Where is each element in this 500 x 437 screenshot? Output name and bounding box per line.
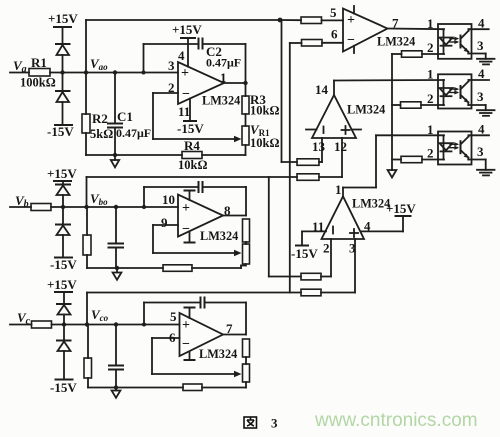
ground arrow channel B (113, 266, 122, 280)
resistor R3 channel B (243, 219, 250, 242)
svg-text:5: 5 (170, 309, 177, 324)
node junction dots channel C (62, 322, 146, 326)
svg-text:+15V: +15V (48, 11, 78, 26)
node junction dots channel B (61, 205, 146, 209)
svg-text:Vb: Vb (15, 193, 29, 210)
power stub bottom comparator (353, 46, 355, 53)
op-amp U1B triangle (178, 195, 223, 237)
wire resistor to pin2 vertical (321, 276, 331, 278)
wire pin2 to row 276 (330, 239, 332, 277)
optocoupler U5 box (438, 132, 472, 165)
resistor opto3 pin2 (401, 156, 422, 162)
potentiometer channel B (243, 244, 250, 264)
wire pin11 stub to -15V U2C (296, 231, 326, 245)
svg-text:+: + (347, 13, 355, 28)
ground bus for opto resistors (391, 54, 393, 170)
svg-text:0.47μF: 0.47μF (206, 56, 241, 70)
power stub pin4 op-amp U1B (185, 191, 195, 201)
ground symbol opto3 (477, 170, 495, 176)
diode D1 clamp to +15V channel A (56, 44, 70, 73)
capacitor C1 channel C (109, 325, 123, 388)
wire Vb input (10, 206, 31, 208)
resistor R4 (182, 152, 202, 159)
svg-text:+15V: +15V (47, 277, 77, 292)
svg-text:R4: R4 (184, 138, 200, 153)
svg-text:+: + (181, 66, 189, 81)
svg-text:-15V: -15V (177, 121, 204, 136)
svg-text:3: 3 (349, 241, 356, 256)
wire Vbo rail to comparators (87, 177, 298, 207)
capacitor C1 channel B (109, 207, 124, 268)
svg-text:Vc: Vc (17, 310, 31, 327)
capacitor C1 (108, 73, 122, 156)
svg-text:3: 3 (477, 38, 484, 53)
wire Vco node main (52, 324, 180, 326)
power stub pin11 channel C (185, 352, 195, 361)
svg-text:2: 2 (323, 241, 330, 256)
wire opto3 pin3 to ground (468, 160, 485, 170)
resistor R3 channel C (243, 339, 250, 357)
power -15V op-amp U1A pin11 (184, 99, 196, 122)
resistor R4 channel B (163, 265, 192, 272)
svg-text:−: − (182, 337, 190, 352)
node junction at pin5 resistor (278, 18, 283, 23)
wire R3 to pot channel B (245, 242, 247, 244)
diode clamp to +15V channel C (57, 304, 71, 325)
power stub pin11 op-amp U1B (185, 231, 195, 242)
wire R3 to VR1 (245, 114, 247, 126)
resistor R2 (82, 73, 90, 156)
plus mark inside U2C (350, 229, 358, 237)
resistor opto1 pin2 (402, 51, 423, 57)
svg-text:3: 3 (168, 58, 175, 73)
resistor R2 channel C (84, 325, 92, 388)
diode clamp to +15V channel B (56, 185, 70, 208)
svg-text:+: + (182, 201, 190, 216)
svg-text:3: 3 (477, 89, 484, 104)
svg-text:+: + (182, 318, 190, 333)
svg-text:2: 2 (427, 40, 434, 55)
diode D2 clamp to -15V channel A (56, 73, 70, 125)
wire resistor to opto3 pin2 (422, 159, 444, 161)
wire pot bottom to ground row channel C (245, 382, 247, 388)
wire Vbo node main (51, 206, 178, 208)
wire resistor to opto2 pin2 (421, 104, 444, 106)
resistor at pin3 U2C in Vco rail (301, 289, 321, 296)
power stub top comparator (353, 6, 355, 14)
svg-text:7: 7 (226, 321, 233, 336)
optocoupler U3 box (438, 24, 472, 59)
svg-text:1: 1 (335, 182, 342, 197)
resistor at pin12 in Vbo rail (297, 174, 319, 181)
svg-text:1: 1 (427, 16, 434, 31)
svg-text:5: 5 (330, 5, 337, 20)
wire bus to opto1 pin2 resistor (392, 53, 402, 55)
svg-text:10kΩ: 10kΩ (250, 136, 279, 150)
svg-text:LM324: LM324 (199, 347, 237, 361)
ground arrow bus (388, 170, 397, 178)
resistor input channel C (32, 321, 52, 328)
wire row to pin13 resistor (282, 161, 298, 163)
minus mark inside U2B (323, 127, 325, 134)
wire Vc input (10, 324, 32, 326)
wire pin6 node drop to Vco rail (289, 43, 291, 293)
wire bus to opto2 pin2 resistor (392, 104, 401, 106)
wire pin12 to Vbo rail (341, 138, 343, 177)
svg-text:3: 3 (271, 416, 278, 431)
svg-text:Vbo: Vbo (90, 191, 108, 207)
svg-text:LM324: LM324 (200, 229, 238, 243)
resistor at comparator pin5 (301, 17, 322, 24)
op-amp U1C triangle channel C (180, 313, 224, 356)
svg-text:4: 4 (478, 16, 485, 31)
wire op-amp U2C output pin1 to opto3 pin1 (343, 135, 444, 196)
wire pin2 inverting feedback to wiper (153, 93, 242, 142)
capacitor feedback channel B (144, 182, 246, 216)
resistor at pin2 U2C (301, 273, 321, 280)
svg-text:4: 4 (478, 122, 485, 137)
wire bus to opto3 pin2 resistor (392, 159, 401, 161)
svg-text:10: 10 (162, 192, 175, 207)
power +15V op-amp U1A pin4 (181, 38, 195, 67)
resistor R1 (29, 69, 50, 77)
svg-text:9: 9 (161, 215, 168, 230)
svg-text:LM324: LM324 (202, 94, 240, 108)
LED inside U3 (440, 29, 453, 54)
wire ground row channel C (88, 387, 246, 389)
power -15V channel C (56, 379, 73, 381)
wire ground row channel A with R4 (86, 154, 246, 156)
svg-text:+15V: +15V (172, 22, 202, 37)
wire opto2 pin3 to ground (468, 105, 485, 110)
wire Vbo drop to row 276 (269, 177, 301, 277)
svg-text:Va: Va (13, 58, 27, 75)
wire resistor to pin6 (322, 42, 343, 44)
op-amp U2B triangle middle pointing up (312, 95, 356, 138)
svg-text:4: 4 (478, 66, 485, 81)
diode clamp to -15V channel B (56, 207, 70, 257)
wire op-amp U1B output pin8 (223, 215, 246, 217)
ground symbol opto2 (477, 110, 495, 116)
svg-text:12: 12 (334, 139, 347, 154)
svg-text:2: 2 (168, 80, 175, 95)
svg-text:+15V: +15V (47, 166, 77, 181)
svg-text:10kΩ: 10kΩ (178, 158, 207, 172)
svg-text:+15V: +15V (386, 201, 416, 216)
ground arrow channel C (112, 385, 121, 398)
svg-text:6: 6 (169, 330, 176, 345)
power tick left U2B (306, 129, 317, 131)
ground arrow channel A (111, 153, 119, 168)
op-amp U1A triangle (178, 62, 224, 104)
wire opto2 pin4 (469, 79, 490, 81)
resistor R4 channel C (183, 384, 202, 391)
wire resistor to pin13 vertical (319, 161, 322, 163)
wire Va input (10, 72, 29, 74)
svg-text:4: 4 (178, 48, 185, 63)
wire op-amp U2B output pin14 to opto2 pin1 (334, 80, 444, 95)
svg-text:14: 14 (315, 82, 329, 97)
svg-text:0.47μF: 0.47μF (116, 126, 151, 140)
svg-text:LM324: LM324 (352, 197, 390, 211)
wire Vao rail to comparator pin5 (86, 20, 280, 73)
wire comparator pin5 input (280, 19, 301, 21)
power stub pin4 channel C (185, 308, 195, 319)
svg-text:2: 2 (427, 91, 434, 106)
potentiometer channel C (243, 364, 250, 382)
plus mark inside U2B (342, 126, 350, 134)
svg-text:1: 1 (220, 70, 227, 85)
LED inside U4 (440, 80, 453, 105)
resistor at comparator pin6 (302, 40, 323, 47)
wire comparator pin6 input (290, 42, 302, 44)
svg-text:Vco: Vco (91, 307, 109, 323)
svg-text:10kΩ: 10kΩ (250, 104, 279, 118)
svg-text:R1: R1 (31, 55, 47, 70)
wire VR1 bottom to ground row (245, 145, 247, 155)
wire resistor to pin12 vertical (319, 176, 342, 178)
svg-text:-15V: -15V (291, 246, 318, 261)
wire Vao drop to pin13 row (281, 20, 283, 162)
ground symbol opto1 (477, 59, 495, 65)
svg-text:11: 11 (312, 219, 324, 234)
wire op-amp U1C output pin7 (223, 334, 246, 336)
resistor R2 channel B (83, 207, 91, 268)
capacitor feedback channel C (144, 298, 246, 335)
wire resistor to pin3 vertical (321, 292, 355, 294)
power +15V channel B (54, 181, 71, 184)
wire op-amp U1A output pin1 (224, 44, 248, 96)
svg-text:C1: C1 (117, 109, 133, 124)
resistor opto2 pin2 (401, 102, 422, 108)
power +15V channel A (54, 27, 71, 44)
svg-text:-15V: -15V (50, 380, 77, 395)
wire ground row channel B (87, 264, 246, 268)
wire opto1 pin4 (469, 28, 489, 30)
svg-text:LM324: LM324 (347, 103, 385, 117)
svg-text:5kΩ: 5kΩ (90, 127, 113, 141)
svg-text:www.cntronics.com: www.cntronics.com (314, 410, 478, 431)
capacitor C2 feedback (144, 39, 246, 73)
light arrows U4 (450, 87, 459, 94)
wire opto3 pin4 (469, 134, 490, 136)
wire comparator output pin7 to opto1 pin1 (388, 28, 445, 31)
svg-text:100kΩ: 100kΩ (20, 76, 56, 90)
svg-text:−: − (182, 222, 190, 237)
optocoupler U4 box (438, 74, 472, 108)
power +15V channel C (55, 292, 72, 304)
power -15V channel B (55, 257, 72, 259)
svg-text:6: 6 (331, 27, 338, 42)
wire resistor to opto1 pin2 (422, 53, 444, 55)
wire resistor to pin5 (322, 19, 344, 21)
wire pin3 to Vco row (354, 239, 356, 293)
svg-text:13: 13 (312, 139, 326, 154)
light arrows U5 (450, 142, 459, 149)
potentiometer VR1 (242, 126, 249, 145)
svg-text:−: − (182, 87, 190, 102)
resistor input channel B (31, 204, 51, 211)
wire Va node main (50, 72, 178, 74)
svg-text:1: 1 (427, 122, 434, 137)
svg-text:3: 3 (477, 144, 484, 159)
wire pin13 to row (321, 138, 323, 162)
phototransistor U3 (461, 29, 469, 53)
svg-text:Vao: Vao (90, 56, 108, 72)
phototransistor U4 (461, 80, 469, 105)
svg-text:−: − (347, 33, 355, 48)
light arrows U3 (450, 37, 459, 44)
diode clamp to -15V channel C (57, 325, 71, 380)
wire pin6 inverting feedback to wiper channel C (152, 338, 242, 377)
op-amp U2A comparator triangle top right (343, 9, 388, 52)
svg-text:2: 2 (427, 146, 434, 161)
wire opto1 pin3 to ground (468, 54, 485, 59)
svg-text:LM324: LM324 (377, 35, 415, 49)
svg-text:7: 7 (392, 16, 399, 31)
svg-text:4: 4 (364, 219, 371, 234)
op-amp U2C triangle lower pointing up (322, 196, 365, 239)
svg-text:-15V: -15V (50, 257, 77, 272)
svg-text:R2: R2 (92, 111, 108, 126)
wire Vco rail to comparators (87, 293, 301, 325)
wire pin9 inverting feedback to wiper channel B (153, 225, 242, 256)
LED inside U5 (440, 135, 453, 159)
minus mark inside U2C (332, 227, 334, 234)
power tick right U2B (352, 129, 362, 131)
svg-text:-15V: -15V (47, 124, 74, 139)
resistor at pin13 (297, 159, 319, 166)
phototransistor U5 (461, 135, 469, 159)
svg-text:8: 8 (224, 203, 231, 218)
node junction dots channel A (60, 70, 145, 74)
wire R3 to pot channel C (245, 357, 247, 364)
power -15V channel A (55, 124, 72, 126)
wire pin4 stub to +15V U2C (361, 216, 411, 231)
svg-text:1: 1 (427, 67, 434, 82)
svg-text:11: 11 (178, 104, 190, 119)
resistor R3 (242, 96, 249, 114)
figure caption tu 3 (244, 416, 278, 431)
